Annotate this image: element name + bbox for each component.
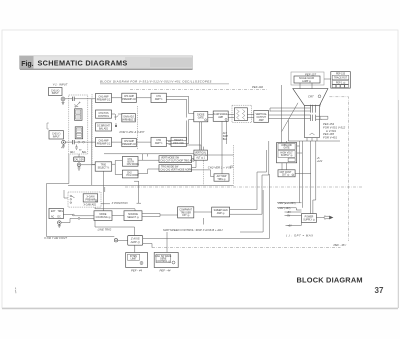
wire long horizontal y141	[288, 140, 340, 142]
svg-text:CH2 MODE: CH2 MODE	[127, 164, 140, 166]
svg-text:PEF-1 ◎: PEF-1 ◎	[336, 81, 345, 84]
capacitor CH1 coupling	[65, 97, 80, 101]
block variable gain	[122, 114, 136, 122]
note handwritten PEF refs	[323, 122, 346, 140]
svg-text:ALT SWP: ALT SWP	[217, 175, 227, 178]
block CH2 volts/div amp	[122, 138, 137, 146]
wire X position drop	[134, 181, 141, 203]
svg-text:INPUT: INPUT	[53, 136, 60, 138]
svg-text:UNBLANK: UNBLANK	[281, 144, 292, 147]
svg-text:FOR V-451: FOR V-451	[323, 136, 337, 140]
wire source to trigger	[142, 214, 178, 217]
svg-text:+12V (-12V): +12V (-12V)	[278, 208, 291, 210]
node supply rails labels	[278, 203, 296, 228]
svg-text:COMPARAT: COMPARAT	[179, 209, 192, 212]
svg-text:CH1 (X): CH1 (X)	[51, 90, 60, 92]
wire long vertical from CH1 bus	[92, 99, 95, 186]
block unblanking gate + HV supply	[277, 143, 297, 163]
svg-text:AMP: AMP	[218, 116, 223, 119]
svg-text:TRIG: TRIG	[101, 165, 107, 167]
block trigger coupling	[94, 211, 112, 221]
wire trigger to sweep	[194, 211, 212, 213]
node junction dot	[115, 123, 117, 127]
svg-text:POL NORM: POL NORM	[127, 175, 139, 177]
wire horizontal bus	[68, 184, 234, 186]
wire logic top riser	[104, 154, 194, 161]
svg-text:PREAMP 1/2: PREAMP 1/2	[97, 142, 111, 145]
block CH2 second amp	[151, 137, 166, 146]
svg-text:CRT: CRT	[308, 95, 314, 99]
connector J1 CH1 BNC	[61, 97, 65, 101]
svg-text:PEF - 44: PEF - 44	[131, 269, 142, 273]
block CH1 mode switch	[122, 157, 139, 167]
svg-text:VERT MODE SW: VERT MODE SW	[161, 157, 180, 159]
wire ext trig to coupling	[61, 215, 94, 223]
svg-text:X GAIN ADJ: X GAIN ADJ	[84, 204, 97, 207]
wire neck bottom leads	[307, 138, 317, 141]
svg-text:CH2: CH2	[156, 140, 161, 142]
svg-text:Fig.: Fig.	[21, 61, 33, 68]
svg-text:⎣: ⎣	[321, 117, 322, 120]
svg-text:PREAMP 2/2: PREAMP 2/2	[122, 143, 136, 146]
svg-text:MODE: MODE	[100, 214, 107, 216]
wire lamp leads to CRT	[300, 83, 312, 89]
svg-text:VERTICAL: VERTICAL	[256, 113, 268, 116]
wire CRT bell lead	[282, 103, 298, 141]
capacitor CH2 coupling	[65, 140, 74, 144]
ground inside attenuator	[70, 145, 87, 155]
svg-text:CH1 AMP: CH1 AMP	[98, 95, 109, 98]
svg-text:SWP: SWP	[223, 136, 229, 138]
svg-text:AMP: AMP	[259, 119, 264, 122]
block CRT control	[278, 170, 295, 177]
CRT bell	[293, 89, 328, 106]
svg-text:X-GAIN: X-GAIN	[86, 195, 94, 198]
wire alt sweep riser	[222, 121, 227, 174]
wire pickoff from CH amps	[168, 142, 171, 145]
switch trigger source contacts	[72, 214, 80, 219]
block CH1 second amp	[151, 93, 166, 102]
svg-text:INPUT: INPUT	[52, 93, 59, 95]
svg-text:BLOCK DIAGRAM FOR V-551/V-512/: BLOCK DIAGRAM FOR V-551/V-512/V-501/V-45…	[100, 80, 212, 84]
boundary vertical section (dash-dot)	[92, 85, 268, 164]
wire V amp to delay line	[228, 115, 234, 118]
svg-text:CH2-VER 1 + V-51: CH2-VER 1 + V-51	[208, 165, 232, 169]
wire delay line to vertical output	[247, 115, 253, 118]
svg-text:CH2: CH2	[127, 172, 132, 174]
svg-text:EXT: EXT	[51, 211, 56, 213]
block CH1 position	[96, 110, 112, 118]
svg-text:AMP ◎: AMP ◎	[217, 212, 225, 215]
svg-text:LIMIT: LIMIT	[131, 258, 137, 260]
block ext blanking	[126, 253, 148, 273]
block CH2 attenuator switch	[75, 127, 83, 139]
svg-text:GATE: GATE	[283, 147, 290, 150]
wire trig select to mode boxes	[112, 161, 123, 175]
svg-text:+8V: +8V	[288, 226, 293, 228]
svg-text:FOR V-451 & V-457: FOR V-451 & V-457	[120, 130, 145, 134]
wire mode boxes to vert switch	[138, 160, 159, 173]
block CH2 preamp	[96, 138, 112, 147]
svg-text:CH2 (Y): CH2 (Y)	[52, 134, 61, 136]
svg-text:[2]: [2]	[229, 165, 233, 169]
switch CH2 contacts	[74, 141, 92, 143]
wire vert logic to diode gate	[199, 122, 201, 150]
connector J2 CH2 BNC	[62, 140, 66, 144]
note stray mark left margin	[14, 288, 17, 294]
CRT horizontal deflection plates	[311, 115, 316, 121]
svg-text:SCHEMATIC DIAGRAMS: SCHEMATIC DIAGRAMS	[38, 59, 128, 68]
wire trig pickoff down	[186, 145, 203, 150]
wire lamp to cluster	[324, 78, 331, 80]
svg-text:BAL ADJ: BAL ADJ	[99, 128, 108, 131]
svg-text:SCALE ILLUM: SCALE ILLUM	[299, 77, 314, 80]
svg-text:Y-1 · INPUT: Y-1 · INPUT	[53, 83, 68, 87]
wire CH1 preamp to stage2	[112, 97, 152, 99]
banner: Fig. SCHEMATIC DIAGRAMS	[20, 56, 193, 70]
block trig mode switch	[159, 165, 192, 172]
svg-text:PEF-102: PEF-102	[252, 85, 263, 89]
svg-text:AC: AC	[51, 215, 55, 218]
svg-text:ALT: ALT	[223, 132, 228, 135]
block CH1 volts/div amp	[122, 93, 137, 102]
block CH1 (X) INPUT	[49, 88, 63, 96]
svg-text:SUPPLY ◎: SUPPLY ◎	[281, 154, 293, 157]
block CH2 (Y) INPUT	[49, 131, 64, 139]
connector J3 CAL BNC	[77, 163, 81, 167]
svg-text:SUPPLY ◎: SUPPLY ◎	[303, 218, 315, 221]
wire line trig path	[95, 221, 135, 236]
svg-text:PREAMP 1/2: PREAMP 1/2	[97, 98, 111, 101]
svg-text:SWEEP GEN: SWEEP GEN	[214, 210, 228, 212]
block trigger circuit	[178, 207, 194, 218]
block CH1 preamp	[96, 94, 112, 103]
block diode gate	[194, 112, 208, 122]
node bracket marks	[321, 104, 322, 120]
boundary bottom edge (dash-dot)	[152, 247, 341, 249]
wire coupling to source	[112, 214, 124, 216]
svg-text:GATE: GATE	[198, 117, 205, 120]
block vert mode logic	[194, 150, 208, 160]
diagram title	[100, 80, 229, 84]
block power supply	[302, 214, 317, 223]
block sweep generator	[212, 207, 230, 217]
block Z axis amp	[128, 236, 143, 246]
svg-text:LAMP ◎: LAMP ◎	[302, 80, 311, 83]
wire CH2 chain	[92, 141, 151, 143]
svg-text:37: 37	[375, 286, 384, 295]
block vertical output amp driver	[213, 111, 228, 121]
svg-text:CAL 0.5V: CAL 0.5V	[74, 158, 84, 161]
svg-text:SOURCE: SOURCE	[128, 214, 138, 216]
svg-text:ALT ◎ 1: ALT ◎ 1	[196, 156, 205, 159]
wire hv to crt rails	[295, 146, 311, 173]
svg-text:TRIG: TRIG	[58, 211, 64, 213]
svg-text:COUPLING ◎: COUPLING ◎	[96, 216, 111, 219]
block vert mode switch	[159, 156, 195, 163]
svg-text:+5V: +5V	[287, 212, 292, 214]
block X gain amp	[83, 194, 98, 207]
CRT neck	[305, 106, 320, 138]
svg-text:DIODE: DIODE	[197, 115, 205, 117]
svg-text:CH1 CH2 VERT MODE NORM: CH1 CH2 VERT MODE NORM	[160, 169, 192, 171]
ground at J3	[78, 167, 81, 171]
node +5V +12V label	[317, 158, 323, 163]
svg-text:CH1 POS: CH1 POS	[98, 113, 109, 115]
wire unblank riser	[282, 141, 287, 170]
wire x amp bottom	[95, 204, 135, 211]
wire z axis outputs	[135, 174, 270, 253]
block alt sweep trigger	[214, 174, 229, 181]
boundary trigger section (dash-dot)	[125, 145, 363, 187]
svg-text:TRIG ◎: TRIG ◎	[217, 178, 225, 181]
wire diode gate to V amp	[208, 115, 213, 118]
ground at J2	[62, 144, 65, 148]
wire sweep rails up	[257, 141, 269, 187]
svg-text:POWER: POWER	[305, 216, 314, 218]
svg-text:V-GB SIGNAL: V-GB SIGNAL	[213, 113, 228, 116]
svg-text:DC BRIGHT: DC BRIGHT	[97, 126, 110, 128]
svg-text:DC: DC	[58, 216, 62, 218]
wire holdoff elbow	[203, 190, 263, 232]
svg-text:CH1 AMP: CH1 AMP	[124, 95, 135, 98]
connector AC plug	[316, 215, 333, 219]
svg-text:TRACE ROT: TRACE ROT	[334, 77, 348, 80]
svg-text:PEF - 48 /: PEF - 48 /	[334, 243, 348, 247]
svg-text:PREAMP: PREAMP	[86, 198, 96, 201]
svg-text:BLK: BLK	[223, 139, 228, 141]
svg-text:PEF - 44: PEF - 44	[160, 269, 171, 273]
block trigger pickoff	[171, 137, 186, 146]
wire CH1 amp2 to diode gate	[166, 96, 194, 113]
svg-text:CONTROL: CONTROL	[98, 116, 110, 118]
svg-text:TRIG MODE SW: TRIG MODE SW	[161, 166, 179, 168]
svg-text:CH2 AMP: CH2 AMP	[124, 140, 135, 143]
wire sweep outputs right	[230, 187, 262, 214]
block delay line (dashed)	[232, 105, 252, 122]
connector J4 EXT TRIG BNC	[58, 221, 62, 228]
svg-text:VARIABLE 2: VARIABLE 2	[122, 118, 136, 121]
wire trig select down	[102, 171, 104, 211]
CRT vertical deflection plates	[311, 105, 316, 113]
wire cal riser	[166, 232, 168, 253]
node AUX label	[223, 132, 229, 141]
connector Z input	[114, 239, 127, 242]
svg-text:BAL: BAL	[82, 151, 87, 154]
block CH1 attenuator switch	[75, 109, 83, 121]
block trace rotation cluster	[331, 72, 351, 89]
svg-text:SWP SPEED CONTROL: SWP X AXIS: SWP SPEED CONTROL: SWP X AXIS B + ADJ	[163, 228, 223, 232]
switch CH1 AC-GND-DC	[75, 102, 80, 107]
block CAL OUT	[74, 157, 85, 162]
svg-text:CKT ◎: CKT ◎	[282, 173, 289, 176]
wire CH2 amp2 to diode gate	[166, 120, 194, 144]
block vertical output amplifier	[254, 111, 269, 123]
block EXT TRIG input	[49, 208, 63, 218]
wire attenuator to cal out	[78, 154, 80, 163]
block X gain preamp (dashed enclosure)	[68, 192, 101, 207]
svg-text:TRIGGER: TRIGGER	[180, 212, 191, 214]
svg-text:+12V: +12V	[317, 161, 323, 163]
svg-text:SELECT ◎: SELECT ◎	[127, 216, 139, 219]
wire vertical plate rails	[270, 85, 311, 143]
svg-text:⎢: ⎢	[321, 104, 322, 107]
wire cal to trig select	[81, 164, 95, 166]
svg-text:AMP ◎: AMP ◎	[130, 240, 141, 244]
block trigger source	[124, 211, 142, 221]
svg-text:( ) : OPT = MAX: ( ) : OPT = MAX	[286, 233, 313, 237]
svg-text:BLOCK DIAGRAM: BLOCK DIAGRAM	[297, 275, 363, 284]
wire trig mode to alt swp	[192, 155, 234, 177]
boundary right edge (dash-dot)	[329, 97, 348, 241]
wire horizontal plate rails	[269, 115, 328, 119]
block calibrator	[154, 253, 178, 273]
wire vert mode to logic	[192, 159, 196, 168]
block scale illumination lamp	[291, 72, 324, 85]
wire CH1 pos to amp	[112, 113, 122, 115]
svg-text:HIGH VOLT: HIGH VOLT	[280, 152, 293, 154]
svg-text:OUTPUT: OUTPUT	[256, 117, 266, 119]
svg-text:X POSITION: X POSITION	[111, 201, 129, 205]
block input attenuator (dashed enclosure)	[69, 95, 88, 154]
ground at J1	[62, 101, 65, 105]
svg-text:CH2 AMP: CH2 AMP	[98, 139, 109, 142]
svg-text:CONTROL ◎: CONTROL ◎	[156, 260, 170, 263]
block DC balance	[96, 123, 112, 131]
svg-text:+50V (and +80V): +50V (and +80V)	[278, 203, 296, 205]
block CH2 polarity switch	[122, 170, 138, 178]
svg-text:CH1 CUT-OUT CHOP TRIG ADD: CH1 CUT-OUT CHOP TRIG ADD	[160, 159, 194, 162]
svg-text:-5V: -5V	[287, 216, 291, 218]
block trigger source select	[95, 162, 112, 171]
svg-text:LINE TRIG: LINE TRIG	[98, 227, 113, 231]
svg-text:CKT ◎: CKT ◎	[182, 214, 189, 217]
wire x-amp input path	[47, 154, 115, 237]
wire supply rails	[277, 203, 302, 226]
wire CH1 input to preamp	[80, 98, 96, 100]
wire CRT plate drops	[300, 141, 316, 214]
svg-text:PREAMP 2/2: PREAMP 2/2	[122, 98, 136, 101]
node bracket mark left margin	[47, 123, 49, 129]
svg-text:GAIN ADJ: GAIN ADJ	[123, 115, 133, 118]
svg-text:BOTH: BOTH	[128, 161, 135, 163]
potentiometer var gain	[114, 114, 118, 120]
svg-text:CH1: CH1	[156, 96, 161, 98]
svg-text:ADJ: ADJ	[70, 151, 74, 154]
